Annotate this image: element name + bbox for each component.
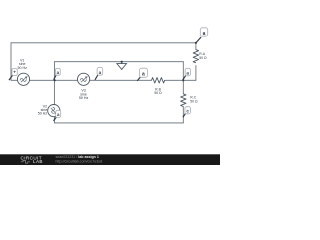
flag node a (mid junction) [54,68,61,79]
svg-text:+: + [13,70,16,75]
wire: left rail [11,43,17,81]
flag node c (R.C bottom) [183,107,191,118]
wire: vertical through junction to V2 [53,62,55,105]
label V3 [79,89,89,100]
label V1 [18,58,28,69]
wire: R.C bottom lead [182,107,184,123]
flag at V3 right terminal [95,67,103,79]
node junction dots [121,61,123,63]
svg-text:a: a [99,70,102,75]
flag at V2 bottom terminal [54,110,61,121]
svg-text:50 Hz: 50 Hz [79,96,89,100]
wire: ground top rail [55,61,184,63]
label R.B [154,87,162,95]
svg-text:sean031231 / lab assign 1: sean031231 / lab assign 1 [56,155,99,159]
wire: outer top [11,42,196,44]
CircuitLab logo [21,155,43,164]
svg-text:50 Ω: 50 Ω [190,99,198,103]
svg-text:http://circuitlab.com/c/u7e3u8: http://circuitlab.com/c/u7e3u8 [56,159,103,163]
svg-text:50 Ω: 50 Ω [199,56,207,60]
footer watermark bar [0,154,220,165]
resistor R.C [181,94,186,107]
wire: mid row V3 to R.B [90,79,152,81]
svg-text:LAB: LAB [33,159,43,164]
wire: right inner rail (to R.C) [182,62,184,94]
resistor R.B [152,78,165,83]
wire: R.A top lead [195,43,197,50]
source V1 [17,73,29,85]
wire: V2 bottom to bottom rail [54,117,183,123]
label R.A [199,52,207,60]
flag at J2 junction [183,68,191,80]
flag + at V1 positive terminal [9,69,17,81]
svg-text:50 Ω: 50 Ω [154,91,162,95]
ground [117,62,127,70]
svg-text:50 Hz: 50 Hz [18,66,28,70]
svg-text:50 Hz: 50 Hz [38,112,48,116]
svg-text:a: a [142,72,145,78]
label V2 [38,104,48,115]
flag node B (R.B left) [137,68,147,81]
resistor R.A [193,50,198,63]
svg-text:a: a [186,70,189,75]
label R.C [190,95,198,103]
svg-text:a: a [203,31,206,37]
wire: R.A bottom lead to corner [195,66,197,81]
source V3 [78,73,90,85]
flag node A (top right) [196,28,208,43]
wire: mid row R.B to right corner [165,79,196,81]
wire: mid row V1 to V3 [30,79,78,81]
source V2 [48,105,60,117]
svg-text:c: c [186,109,189,114]
footer text [56,155,103,163]
